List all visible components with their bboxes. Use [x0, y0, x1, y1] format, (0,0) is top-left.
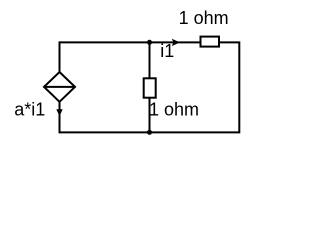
svg-text:i1: i1 — [160, 41, 174, 61]
svg-text:a*i1: a*i1 — [14, 99, 45, 119]
svg-text:1 ohm: 1 ohm — [149, 99, 199, 119]
svg-text:1 ohm: 1 ohm — [179, 8, 229, 28]
